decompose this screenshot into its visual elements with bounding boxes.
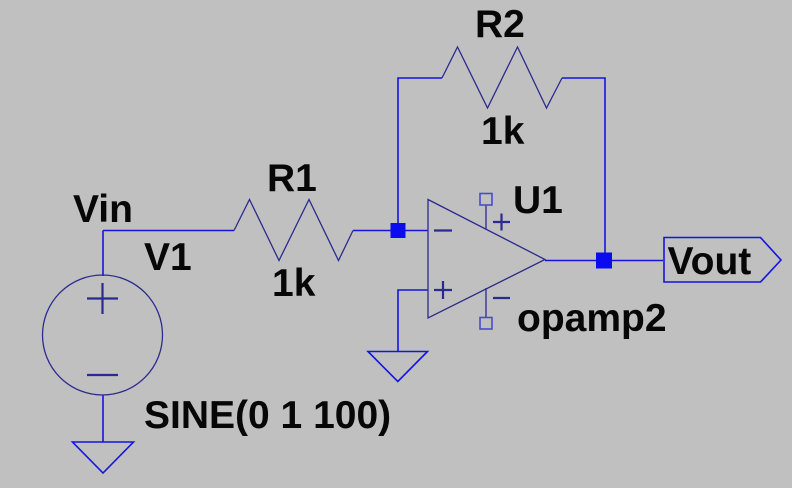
svg-text:Vin: Vin — [73, 188, 133, 231]
svg-text:1k: 1k — [272, 262, 316, 305]
svg-text:V1: V1 — [144, 236, 192, 279]
wire V1 top lead — [102, 231, 104, 277]
wire V1 bottom lead — [102, 395, 104, 442]
ground (V1) — [73, 442, 134, 473]
voltage source V1 — [43, 275, 163, 395]
wire R2 right down to node B — [562, 78, 605, 261]
resistor R2 — [442, 47, 562, 108]
svg-text:Vout: Vout — [668, 240, 752, 283]
svg-text:R2: R2 — [475, 3, 525, 46]
op-amp U1 — [428, 194, 545, 330]
svg-text:1k: 1k — [481, 110, 525, 153]
svg-text:R1: R1 — [267, 157, 317, 200]
wire R1 to node A — [353, 230, 398, 232]
wire node A up to R2 left — [398, 78, 442, 231]
resistor R1 — [234, 200, 353, 261]
wire op-amp noninverting input to ground — [398, 290, 428, 351]
wire node A to op-amp inverting input — [398, 230, 428, 232]
svg-text:SINE(0 1 100): SINE(0 1 100) — [144, 394, 391, 437]
svg-text:U1: U1 — [513, 179, 563, 222]
junction node A — [391, 223, 406, 238]
junction node B — [596, 253, 612, 269]
port Vout flag — [664, 238, 781, 283]
wire Vin horizontal — [103, 230, 234, 232]
wire op-amp output to Vout port — [545, 260, 663, 262]
svg-text:opamp2: opamp2 — [517, 297, 667, 340]
ground (op-amp) — [368, 352, 428, 382]
